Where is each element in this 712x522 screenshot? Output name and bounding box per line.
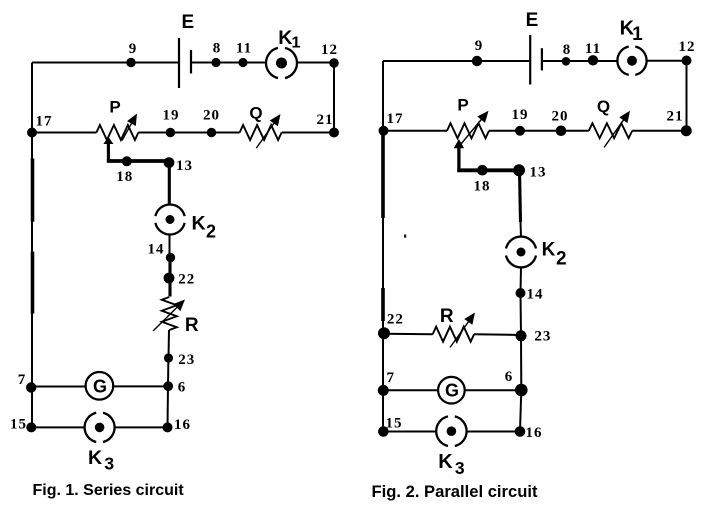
battery E short plate (Fig1) xyxy=(190,50,192,74)
svg-text:21: 21 xyxy=(667,109,684,125)
svg-text:P: P xyxy=(457,95,468,114)
svg-text:11: 11 xyxy=(585,41,601,57)
node 11 (Fig2) xyxy=(588,55,598,65)
svg-text:18: 18 xyxy=(474,178,491,194)
node 9 (Fig1) xyxy=(126,58,135,67)
wire Fig1 left rail xyxy=(31,63,33,428)
arrow on R (Fig1) xyxy=(153,306,178,331)
wire R to node 23 (Fig1) xyxy=(168,330,171,358)
svg-text:2: 2 xyxy=(206,222,216,242)
wire 23 to 6 (Fig1) xyxy=(167,358,169,386)
galvanometer G (Fig2) xyxy=(438,377,465,404)
wire Fig2 row2 17 to P xyxy=(383,130,447,132)
svg-text:20: 20 xyxy=(552,109,569,125)
svg-text:G: G xyxy=(93,377,107,397)
svg-text:15: 15 xyxy=(10,417,27,433)
svg-text:6: 6 xyxy=(178,379,187,395)
node 13 (Fig1) xyxy=(164,157,175,168)
battery E short plate (Fig2) xyxy=(541,48,543,70)
arrow on R (Fig2) xyxy=(450,320,469,347)
node 19 (Fig1) xyxy=(166,128,175,137)
svg-text:K: K xyxy=(278,27,292,49)
svg-text:19: 19 xyxy=(163,108,180,124)
svg-text:K: K xyxy=(542,240,556,261)
wiper arrow of P (Fig2) xyxy=(457,147,460,172)
wire Fig1 left rail thick segment A xyxy=(31,159,35,222)
wire Fig1 K1 to node 12 xyxy=(297,62,334,64)
wire Fig1 top rail left of battery xyxy=(32,62,179,64)
svg-text:Q: Q xyxy=(249,104,262,123)
rheostat Q zigzag (Fig1) xyxy=(240,125,282,140)
node 19 (Fig2) xyxy=(515,126,525,136)
node 20 (Fig2) xyxy=(556,125,567,136)
svg-text:11: 11 xyxy=(236,40,252,56)
node 23 (Fig2) xyxy=(516,330,527,341)
wire Fig1 row2 Q to 21 xyxy=(282,132,334,134)
svg-text:22: 22 xyxy=(178,272,195,288)
key K2 (Fig2) xyxy=(506,237,536,268)
key K3 (Fig2) xyxy=(436,416,466,446)
battery E long plate (Fig2) xyxy=(529,35,531,85)
wire Fig2 left rail xyxy=(382,61,384,432)
svg-text:20: 20 xyxy=(203,108,220,124)
arrow on P (Fig1) xyxy=(122,122,132,141)
wire G to 6 (Fig2) xyxy=(465,389,522,391)
wire Fig1 right rail 12-21 xyxy=(333,63,335,133)
svg-text:9: 9 xyxy=(129,41,138,57)
node 21 (Fig1) xyxy=(329,128,339,138)
wire 23 to 6 (Fig2) xyxy=(520,336,522,390)
node 8 (Fig2) xyxy=(562,57,571,66)
wire 7 to G (Fig2) xyxy=(383,389,438,391)
rheostat Q zigzag (Fig2) xyxy=(589,123,632,138)
wire Fig2 left rail thick segment A xyxy=(381,131,385,218)
svg-text:Fig. 1. Series circuit: Fig. 1. Series circuit xyxy=(33,482,185,499)
wire 15 to K3 (Fig2) xyxy=(383,431,436,433)
svg-text:E: E xyxy=(526,10,539,31)
node 16 (Fig2) xyxy=(515,426,526,437)
rheostat R zigzag (Fig2) xyxy=(433,327,474,342)
node 22 (Fig2) xyxy=(378,327,390,339)
svg-text:3: 3 xyxy=(455,458,465,478)
svg-text:3: 3 xyxy=(104,453,114,473)
thick wire wiper to node 13 (Fig2) xyxy=(457,168,519,172)
wire Fig2 row2 Q to 21 xyxy=(632,130,686,132)
svg-text:E: E xyxy=(181,12,194,33)
wire Fig2 top rail left of battery xyxy=(383,60,530,62)
svg-text:15: 15 xyxy=(386,415,403,431)
node 7 (Fig2) xyxy=(378,385,389,396)
arrow on Q (Fig1) xyxy=(256,122,275,148)
rheostat R zigzag (Fig1) xyxy=(162,297,177,330)
potentiometer P zigzag (Fig1) xyxy=(96,125,138,140)
wire K2 to node 14 (Fig1) xyxy=(169,235,171,258)
svg-text:8: 8 xyxy=(213,40,222,56)
svg-text:17: 17 xyxy=(36,113,53,129)
svg-text:17: 17 xyxy=(387,111,404,127)
svg-text:2: 2 xyxy=(556,249,567,270)
thick wire 14 to R (Fig1) xyxy=(168,257,171,297)
svg-text:K: K xyxy=(88,447,102,469)
svg-text:1: 1 xyxy=(292,34,301,51)
node 16 (Fig1) xyxy=(163,422,173,432)
key K2 (Fig1) xyxy=(155,204,184,234)
svg-text:K: K xyxy=(438,451,453,473)
stray speck (Fig2) xyxy=(404,235,406,238)
node 15 (Fig1) xyxy=(26,422,36,432)
arrow on P (Fig2) xyxy=(461,118,482,144)
node 11 (Fig1) xyxy=(238,58,247,67)
svg-text:14: 14 xyxy=(527,287,544,303)
wire K3 to 16 (Fig1) xyxy=(115,426,168,428)
svg-text:14: 14 xyxy=(148,241,165,257)
svg-text:21: 21 xyxy=(317,112,334,128)
potentiometer P zigzag (Fig2) xyxy=(447,123,489,138)
wire Fig2 right rail 12-21 xyxy=(686,61,688,131)
svg-text:G: G xyxy=(445,381,459,401)
node 12 (Fig1) xyxy=(329,58,339,68)
node 23 (Fig1) xyxy=(164,353,173,362)
svg-text:13: 13 xyxy=(176,158,193,174)
svg-text:12: 12 xyxy=(321,42,338,58)
svg-text:6: 6 xyxy=(505,369,514,385)
wire Fig2 row2 P to Q xyxy=(489,130,589,132)
node 13 (Fig2) xyxy=(513,164,525,176)
svg-text:19: 19 xyxy=(512,107,529,123)
svg-text:Q: Q xyxy=(597,97,610,116)
svg-text:22: 22 xyxy=(387,311,404,327)
node 20 (Fig1) xyxy=(207,128,216,137)
svg-text:9: 9 xyxy=(475,38,484,54)
svg-text:Fig. 2. Parallel circuit: Fig. 2. Parallel circuit xyxy=(372,482,538,501)
svg-text:1: 1 xyxy=(632,24,643,45)
svg-text:23: 23 xyxy=(178,352,195,368)
node 17 (Fig1) xyxy=(27,128,37,138)
wire 13 thick-to-K2 thin part (Fig2) xyxy=(520,222,523,237)
thick wire 13 to K2 (Fig1) xyxy=(168,162,171,205)
node 14 (Fig1) xyxy=(166,253,175,262)
key K3 (Fig1) xyxy=(85,413,115,442)
wire Fig2 battery to K1 xyxy=(542,60,618,62)
wire Fig2 K1 to node 12 xyxy=(647,60,687,62)
svg-text:R: R xyxy=(185,315,199,336)
svg-text:8: 8 xyxy=(563,42,572,58)
node 9 (Fig2) xyxy=(472,56,482,66)
galvanometer G (Fig1) xyxy=(86,372,114,400)
arrow on Q (Fig2) xyxy=(604,119,624,148)
svg-text:7: 7 xyxy=(386,370,395,386)
thick wire 13 to K2 (Fig2) xyxy=(520,170,521,222)
svg-text:7: 7 xyxy=(18,372,27,388)
battery E long plate (Fig1) xyxy=(178,38,180,88)
node 8 (Fig1) xyxy=(211,58,220,67)
wire Fig1 top rail battery to K1 xyxy=(191,62,266,64)
wire Fig1 row2 P to Q xyxy=(138,132,239,134)
wire 15 to K3 (Fig1) xyxy=(31,426,84,428)
svg-text:R: R xyxy=(440,306,454,327)
key K1 (Fig2) xyxy=(617,46,646,74)
key K1 (Fig1) xyxy=(266,48,297,78)
wire Fig1 row2 17 to P xyxy=(32,132,96,134)
node 21 (Fig2) xyxy=(681,125,692,136)
node 14 (Fig2) xyxy=(516,288,526,298)
wire 6 to 16 (Fig1) xyxy=(167,386,170,427)
wire 7 to G (Fig1) xyxy=(31,386,85,388)
svg-text:18: 18 xyxy=(116,169,133,185)
node 7 (Fig1) xyxy=(26,382,36,392)
wire 22 to R (Fig2) xyxy=(384,333,433,335)
node 15 (Fig2) xyxy=(378,426,389,437)
wire R to 23 (Fig2) xyxy=(474,333,521,336)
svg-text:13: 13 xyxy=(530,165,547,181)
wire K3 to 16 (Fig2) xyxy=(467,431,520,433)
node 18 (Fig1) xyxy=(122,156,132,166)
wire K2 to node 14 (Fig2) xyxy=(520,267,523,293)
node 12 (Fig2) xyxy=(682,56,692,66)
node 22 (Fig1) xyxy=(164,273,175,284)
node 6 (Fig2) xyxy=(515,384,528,397)
svg-text:P: P xyxy=(109,97,120,116)
thick wire wiper to node 13 (Fig1) xyxy=(107,159,170,163)
svg-text:16: 16 xyxy=(174,417,191,433)
wire G to 6 (Fig1) xyxy=(113,385,168,387)
node 17 (Fig2) xyxy=(379,126,389,136)
node 6 (Fig1) xyxy=(163,381,173,391)
wire 6 to 16 (Fig2) xyxy=(520,390,521,432)
node 18 (Fig2) xyxy=(477,165,488,176)
svg-text:12: 12 xyxy=(679,39,696,55)
svg-text:16: 16 xyxy=(526,425,543,441)
svg-text:K: K xyxy=(191,213,205,235)
wire 14 to 23 (Fig2) xyxy=(520,293,523,336)
svg-text:23: 23 xyxy=(534,329,551,345)
wire Fig1 left rail thick segment B xyxy=(31,252,35,314)
wiper arrow of P (Fig1) xyxy=(107,143,110,162)
wire Fig2 left rail thick segment B xyxy=(381,288,385,321)
